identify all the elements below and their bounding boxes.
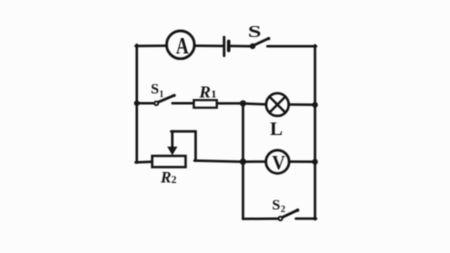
switch S1 blade tip dot — [173, 94, 176, 97]
svg-text:S: S — [272, 197, 280, 213]
wire top-left horizontal — [136, 45, 167, 48]
battery cell long plate — [223, 37, 226, 56]
junction node voltmeter/rheostat — [240, 159, 246, 165]
svg-text:1: 1 — [159, 89, 164, 99]
svg-text:1: 1 — [211, 88, 217, 100]
wire R1 to node — [217, 102, 243, 105]
ammeter A1 circle — [167, 31, 195, 59]
resistor R1 body — [194, 100, 217, 108]
junction node lamp to right vertical — [312, 102, 318, 108]
wire mid vertical — [242, 103, 245, 218]
lamp L circle — [266, 93, 289, 116]
rheostat R2 wiper arrowhead — [167, 147, 177, 156]
switch S1 pivot ring — [154, 101, 158, 105]
svg-text:S: S — [151, 82, 159, 98]
svg-text:R: R — [198, 82, 210, 101]
switch S blade — [254, 38, 269, 45]
switch S pivot dot — [250, 43, 256, 49]
wire node to voltmeter — [243, 160, 266, 163]
wire switch S to top-right corner — [267, 45, 316, 48]
wire S2 to bottom-right corner — [296, 217, 316, 220]
svg-text:L: L — [270, 119, 283, 140]
lamp L cross stroke 2 — [270, 97, 286, 113]
rheostat R2 wiper stem — [171, 131, 174, 148]
svg-text:2: 2 — [171, 175, 176, 186]
wire wiper down-leg — [194, 131, 197, 160]
junction node R1/lamp/mid vertical — [240, 100, 246, 106]
switch S2 pivot ring — [279, 217, 283, 221]
wire left vertical to rheostat R2 — [136, 160, 153, 163]
wire bottom horizontal left part — [243, 217, 278, 220]
lamp L cross stroke 1 — [270, 97, 286, 113]
wire lamp to right vertical — [289, 103, 315, 106]
svg-text:2: 2 — [281, 205, 286, 215]
wire rheostat to node — [195, 161, 244, 162]
svg-text:V: V — [272, 152, 285, 174]
svg-text:R: R — [160, 170, 172, 187]
switch S1 blade — [158, 95, 174, 102]
rheostat R2 body — [152, 156, 185, 167]
wire S1 to R1 — [172, 102, 193, 105]
switch S2 blade tip dot — [296, 209, 299, 212]
voltmeter V1 circle — [266, 150, 289, 173]
wire battery to switch S — [230, 45, 251, 48]
junction node at S1 branch — [134, 100, 140, 106]
wire junction to switch S1 — [137, 102, 154, 105]
svg-text:S: S — [248, 21, 261, 41]
wire ammeter to battery — [194, 45, 222, 48]
wire wiper top horizontal — [171, 130, 195, 133]
wire voltmeter to right vertical — [289, 160, 315, 163]
switch S blade tip dot — [267, 37, 270, 40]
wire left vertical — [136, 45, 139, 163]
junction node voltmeter to right vertical — [312, 159, 318, 165]
battery cell short plate — [227, 41, 230, 50]
svg-text:A: A — [176, 35, 189, 60]
wire right vertical — [314, 45, 317, 219]
switch S2 blade — [282, 210, 298, 217]
wire node to lamp — [243, 102, 266, 105]
